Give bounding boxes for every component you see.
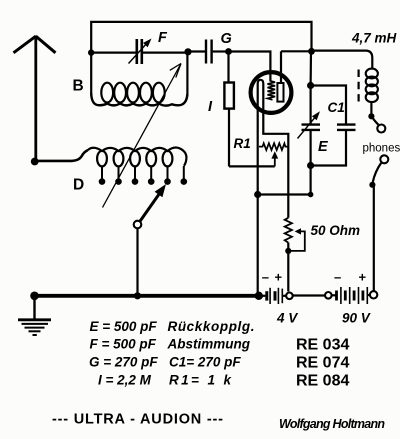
svg-text:+: +	[359, 270, 367, 285]
battery 4V	[259, 288, 287, 304]
inductor 4.7mH	[366, 69, 378, 103]
node C1-E bottom	[307, 162, 314, 169]
coil D top arcs	[88, 147, 187, 165]
node filament-bus	[255, 292, 263, 300]
svg-text:–: –	[334, 270, 341, 285]
wire antenna to coil D	[35, 150, 88, 161]
svg-text:--- ULTRA - AUDION ---: --- ULTRA - AUDION ---	[52, 412, 223, 428]
tube anode plate	[277, 83, 283, 102]
node ground	[30, 292, 39, 301]
wire C1-E bottom down	[310, 166, 312, 195]
svg-text:Abstimmung: Abstimmung	[167, 337, 251, 352]
wire E branch bottom	[311, 131, 346, 166]
R1 wiper	[271, 151, 278, 166]
coupling arrow	[103, 64, 182, 208]
node antenna junction	[31, 158, 39, 166]
capacitor E plates	[337, 125, 356, 130]
coil B left lead	[90, 53, 92, 94]
wire selector to bus	[136, 228, 138, 296]
selector pivot terminal	[134, 221, 142, 229]
tube anode lead	[280, 51, 282, 83]
resistor I	[224, 83, 234, 109]
svg-text:B: B	[73, 78, 84, 95]
wire grid node to tube grid	[229, 52, 271, 82]
wire I bottom to R1 wiper	[229, 165, 275, 167]
svg-text:G = 270 pF: G = 270 pF	[89, 355, 158, 370]
wire 50 Ohm bottom	[287, 243, 289, 292]
50 Ohm wiper	[291, 228, 305, 251]
svg-text:phones: phones	[363, 143, 400, 155]
wire anode node to choke	[312, 51, 373, 69]
wire C1 bottom	[310, 131, 312, 166]
node tank left	[88, 49, 94, 55]
terminal phones bottom	[380, 155, 388, 163]
svg-text:RE 034: RE 034	[296, 337, 349, 354]
svg-text:RE 074: RE 074	[296, 355, 349, 372]
terminal 90V minus	[325, 292, 332, 299]
svg-text:E: E	[318, 139, 329, 155]
wire 4V to 90V	[293, 294, 326, 296]
coil D loops	[97, 151, 172, 167]
svg-text:I = 2,2 M: I = 2,2 M	[98, 373, 152, 388]
resistor I leads	[227, 52, 229, 83]
tube grid	[268, 81, 276, 100]
wire 90V plus up to phones	[373, 186, 375, 291]
svg-text:F: F	[158, 30, 168, 46]
battery 90V	[331, 287, 370, 304]
node grid-leak top	[225, 48, 232, 55]
svg-text:G: G	[221, 31, 232, 47]
wire tank right to capacitor G	[188, 50, 205, 52]
wire ground bus	[35, 294, 260, 298]
node cathode line	[254, 191, 261, 198]
coil D tap stems	[102, 166, 184, 179]
wire anode to node	[281, 50, 312, 52]
node anode	[308, 48, 315, 55]
node selector-bus	[134, 292, 141, 299]
inductor core dashes	[358, 70, 360, 102]
terminal 90V plus	[370, 291, 377, 298]
svg-text:50 Ohm: 50 Ohm	[311, 223, 361, 238]
coil B right lead	[186, 52, 188, 94]
svg-text:4,7 mH: 4,7 mH	[351, 31, 397, 46]
wire tank-left to capacitor F	[91, 51, 135, 53]
node 50 Ohm bottom	[285, 248, 291, 254]
wire capacitor F to tank right	[143, 51, 188, 53]
wire tank top	[91, 22, 311, 53]
wire C1 top	[310, 86, 312, 124]
wire capacitor G to grid node	[213, 50, 229, 52]
coil B loops	[101, 83, 164, 103]
svg-text:RE 084: RE 084	[296, 373, 349, 390]
node choke bottom	[368, 113, 374, 119]
node tank right	[184, 48, 191, 55]
svg-text:F = 500 pF: F = 500 pF	[90, 337, 157, 352]
wire E branch top	[311, 86, 346, 124]
node C1-E top	[307, 82, 314, 89]
tube U1 envelope	[251, 72, 292, 113]
potentiometer R1	[259, 143, 288, 150]
capacitor C1 arrow	[298, 111, 321, 138]
node cathode-wire right	[308, 192, 314, 198]
rheostat 50 Ohm	[285, 218, 292, 243]
svg-text:C1= 270 pF: C1= 270 pF	[169, 355, 241, 370]
wire choke bottom	[370, 102, 372, 116]
svg-text:Wolfgang Holtmann: Wolfgang Holtmann	[279, 417, 385, 431]
svg-text:4 V: 4 V	[276, 311, 298, 326]
svg-text:Rückkopplg.: Rückkopplg.	[168, 319, 255, 334]
svg-text:D: D	[73, 177, 84, 194]
wire anode node down	[310, 51, 313, 85]
wire cathode to right line	[258, 193, 311, 195]
node phones bottom	[369, 182, 375, 188]
terminal phones top	[377, 125, 385, 133]
svg-text:R1: R1	[234, 136, 251, 151]
selector arm arrow	[140, 184, 166, 222]
capacitor F arrow	[129, 39, 152, 64]
svg-text:90 V: 90 V	[342, 311, 371, 326]
svg-text:R1= 1 k: R1= 1 k	[169, 373, 232, 388]
tube filament	[258, 80, 289, 296]
terminal 4V plus	[286, 293, 293, 300]
capacitor G plates	[206, 40, 212, 64]
svg-text:–: –	[262, 270, 269, 285]
svg-text:E = 500 pF: E = 500 pF	[90, 319, 158, 334]
svg-text:C1: C1	[328, 100, 345, 115]
ground	[18, 296, 51, 335]
svg-text:I: I	[208, 99, 213, 115]
hook phones bottom to 90V	[373, 162, 382, 182]
antenna	[14, 36, 56, 161]
capacitor C1 plates	[302, 125, 321, 130]
coil B bottom wire	[91, 93, 187, 106]
coil D tap dots	[99, 178, 187, 185]
capacitor F plates	[137, 39, 142, 64]
svg-text:+: +	[275, 270, 283, 285]
hook choke to phones top	[371, 116, 378, 125]
